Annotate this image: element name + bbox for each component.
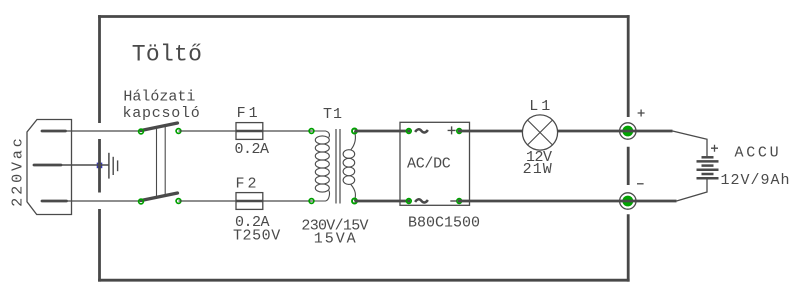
wire transformer secondary bottom to rectifier (thick) xyxy=(355,200,411,203)
svg-text:12V/9Ah: 12V/9Ah xyxy=(721,172,791,189)
rectifier ~ mark top xyxy=(415,129,428,132)
label + (terminal) xyxy=(638,110,645,117)
svg-text:220Vac: 220Vac xyxy=(10,135,27,206)
svg-text:kapcsoló: kapcsoló xyxy=(123,105,201,122)
wire switch to F1 xyxy=(179,130,237,132)
wire transformer secondary top to rectifier (thick) xyxy=(355,130,411,133)
terminal minus xyxy=(620,193,636,209)
terminal plus xyxy=(620,123,636,139)
svg-text:AC/DC: AC/DC xyxy=(407,156,451,173)
wire plug pin1 to switch xyxy=(66,130,142,132)
svg-text:15VA: 15VA xyxy=(314,231,358,248)
rectifier + mark xyxy=(448,126,456,134)
transformer T1 primary terminal bottom xyxy=(309,199,314,204)
lamp L1 xyxy=(522,115,557,150)
wire plug pin3 to switch xyxy=(67,200,142,202)
svg-text:T1: T1 xyxy=(323,106,343,123)
transformer T1 secondary terminal bottom xyxy=(352,199,357,204)
plug pin 1 xyxy=(42,130,66,133)
transformer T1 secondary terminal top xyxy=(352,129,357,134)
charger enclosure box xyxy=(98,15,630,282)
svg-text:21W: 21W xyxy=(523,161,553,178)
rectifier - mark xyxy=(450,200,457,202)
label + (battery) xyxy=(711,145,718,152)
wire rectifier minus through terminal minus to battery (thick) xyxy=(458,200,677,203)
plug pin 2 (earth) xyxy=(34,164,61,167)
svg-text:ACCU: ACCU xyxy=(735,145,782,162)
svg-text:0.2A: 0.2A xyxy=(235,141,270,158)
svg-text:B80C1500: B80C1500 xyxy=(408,215,480,232)
wire lamp through terminal plus to battery (thick) xyxy=(558,130,673,133)
rectifier pin ~ bottom xyxy=(407,199,412,204)
rectifier pin + xyxy=(457,129,462,134)
plug pin 3 xyxy=(42,200,67,203)
wire rectifier + to lamp (thick) xyxy=(458,130,523,133)
wire switch to F2 xyxy=(179,200,237,202)
wire F2 to transformer xyxy=(263,200,312,202)
transformer T1 primary winding xyxy=(312,131,330,201)
wire plug pin2 to earth xyxy=(60,164,110,166)
fuse F2 xyxy=(236,193,263,210)
earth ground symbol xyxy=(109,153,118,179)
svg-text:Töltő: Töltő xyxy=(132,42,203,68)
battery ACCU xyxy=(697,157,719,178)
rectifier pin - xyxy=(457,199,462,204)
svg-text:Hálózati: Hálózati xyxy=(123,88,195,105)
svg-text:F1: F1 xyxy=(237,105,261,122)
rectifier pin ~ top xyxy=(407,129,412,134)
transformer T1 primary terminal top xyxy=(309,129,314,134)
rectifier ~ mark bottom xyxy=(415,199,428,202)
wire battery top diagonal xyxy=(673,131,708,156)
mains plug connector X1 xyxy=(27,120,72,215)
switch S1 (double-pole mains switch) xyxy=(139,123,181,204)
transformer T1 secondary winding xyxy=(343,131,355,201)
junction dot (earth to box edge) xyxy=(97,163,103,169)
wire F1 to transformer xyxy=(263,130,312,132)
svg-text:L1: L1 xyxy=(529,98,553,115)
svg-text:T250V: T250V xyxy=(233,228,281,245)
wire battery bottom diagonal xyxy=(677,179,708,201)
fuse F1 xyxy=(236,123,263,140)
label - (terminal) xyxy=(637,183,644,185)
rectifier U1 box xyxy=(400,122,470,205)
transformer T1 core xyxy=(336,129,340,204)
svg-text:F2: F2 xyxy=(236,175,260,192)
